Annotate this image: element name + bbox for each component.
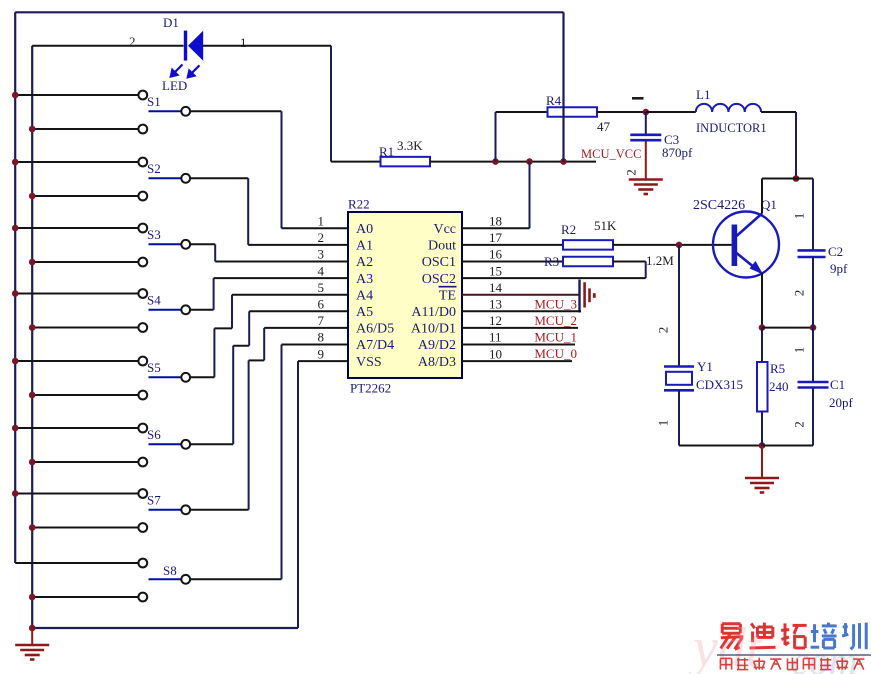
wire S3 to pin 3 [190, 244, 348, 261]
wire C1 bottom lead [763, 388, 813, 446]
wire Q1 collector [761, 179, 763, 214]
resistor R2 [563, 240, 613, 250]
wire ground stub RF section [761, 446, 763, 478]
junction S7 lower on rail [29, 524, 36, 531]
svg-text:S4: S4 [147, 292, 161, 307]
watermark char 训 [842, 623, 866, 650]
svg-text:51K: 51K [594, 218, 617, 233]
junction S2 lower on rail [29, 193, 36, 200]
svg-text:S1: S1 [147, 94, 161, 109]
svg-text:A3: A3 [356, 272, 373, 287]
switch S2 [138, 158, 190, 201]
junction emitter node [759, 324, 766, 331]
resistor R3 [563, 257, 613, 267]
junction MCU_VCC / Vcc branch [526, 158, 533, 165]
wire A9/D2 stub (net MCU_1) [462, 344, 575, 346]
svg-text:VSS: VSS [356, 355, 382, 370]
ground bottom-left [15, 645, 49, 660]
inductor L1 [696, 104, 761, 112]
wire Q1 emitter [761, 273, 763, 328]
svg-text:D1: D1 [163, 15, 179, 30]
svg-text:Vcc: Vcc [433, 222, 456, 237]
watermark char 拓 [781, 623, 807, 648]
svg-text:PT2262: PT2262 [350, 381, 391, 396]
svg-text:R4: R4 [546, 93, 562, 108]
svg-text:S5: S5 [147, 360, 161, 375]
svg-text:1: 1 [792, 347, 807, 354]
svg-text:1: 1 [792, 213, 807, 220]
svg-text:MCU_1: MCU_1 [534, 330, 577, 345]
junction ground node [759, 442, 766, 449]
svg-text:15: 15 [489, 263, 502, 278]
wire TE pin 14 to ground [462, 294, 580, 296]
wire S2 lower terminal to rail [33, 195, 138, 197]
ground RF section [745, 478, 779, 493]
svg-text:INDUCTOR1: INDUCTOR1 [696, 121, 767, 135]
svg-text:2: 2 [656, 327, 671, 334]
junction MCU_VCC / top border branch [560, 158, 567, 165]
wire L1 to collector node [761, 112, 796, 179]
wire S3 upper terminal to common rail [16, 227, 138, 229]
switch S8 [138, 559, 190, 602]
wire S7 lower terminal to rail [33, 527, 138, 529]
svg-text:com: com [791, 638, 858, 674]
svg-text:2: 2 [792, 421, 807, 428]
svg-text:A7/D4: A7/D4 [356, 338, 394, 353]
watermark small char 家 [853, 659, 864, 670]
wire R3 to OSC2 pin 15 [462, 262, 646, 279]
svg-text:2SC4226: 2SC4226 [693, 198, 745, 213]
switch S5 [138, 357, 190, 400]
svg-text:A4: A4 [356, 288, 373, 303]
junction collector node [793, 175, 800, 182]
watermark char 易 [721, 624, 743, 650]
svg-text:5: 5 [318, 280, 325, 295]
capacitor C2 [798, 250, 826, 257]
wire top border [15, 11, 563, 13]
resistor R1 [381, 157, 431, 167]
svg-text:14: 14 [489, 280, 503, 295]
wire C2 top lead [812, 179, 814, 251]
svg-text:18: 18 [489, 214, 502, 229]
junction S4 lower on rail [29, 324, 36, 331]
junction S5 upper on rail [12, 358, 19, 365]
svg-text:A8/D3: A8/D3 [418, 355, 456, 370]
svg-text:6: 6 [318, 297, 325, 312]
svg-text:9pf: 9pf [830, 261, 848, 276]
capacitor C3 [630, 135, 661, 140]
wire top border riser through R4 [562, 12, 564, 161]
wire A11/D0 stub (net MCU_3) [462, 310, 581, 312]
overline of TE [439, 286, 457, 288]
wire Vcc pin 18 riser [462, 162, 530, 229]
wire S4 upper terminal to common rail [16, 293, 138, 295]
wire ground bus bottom [32, 627, 298, 629]
svg-text:A5: A5 [356, 305, 373, 320]
svg-text:OSC1: OSC1 [422, 255, 456, 270]
wire collector top rail [762, 178, 813, 180]
wire C3 to ground [645, 142, 647, 180]
transistor Q1 2SC4226 [713, 212, 779, 278]
wire base node to Y1 [678, 245, 680, 366]
wire C3 node to L1 [646, 111, 696, 113]
svg-text:A6/D5: A6/D5 [356, 322, 394, 337]
svg-text:S7: S7 [147, 492, 161, 507]
wire R4 to C3 node [597, 111, 646, 113]
svg-text:CDX315: CDX315 [696, 377, 743, 392]
wire S8 to pin 8 [190, 345, 348, 580]
watermark small char 频 [737, 658, 748, 670]
wire OSC1 pin 16 to R3 [462, 261, 563, 263]
svg-text:17: 17 [489, 230, 503, 245]
svg-text:A10/D1: A10/D1 [411, 322, 456, 337]
svg-text:R22: R22 [348, 197, 370, 212]
junction S7 upper on rail [12, 490, 19, 497]
wire S6 to pin 6 [190, 311, 348, 444]
svg-text:2: 2 [624, 169, 639, 176]
junction S6 upper on rail [12, 425, 19, 432]
svg-text:MCU_2: MCU_2 [534, 313, 577, 328]
wire D1 cathode to R1 (net 1) [203, 46, 331, 162]
watermark small char 计 [820, 658, 831, 670]
resistor R4 [548, 107, 598, 117]
switch S7 [138, 489, 190, 532]
wire S6 upper terminal to common rail [16, 427, 138, 429]
svg-text:1: 1 [318, 214, 325, 229]
wire A8/D3 stub (net MCU_0) [462, 360, 572, 362]
wire ground stub bottom-left [31, 628, 33, 644]
svg-text:2: 2 [792, 290, 807, 297]
wire S1 to pin 1 [190, 111, 348, 228]
svg-text:OSC2: OSC2 [422, 272, 456, 287]
svg-text:A11/D0: A11/D0 [411, 305, 456, 320]
IC R22 PT2262 body [348, 212, 462, 378]
wire S2 to pin 2 [190, 178, 348, 245]
svg-text:MCU_3: MCU_3 [534, 296, 577, 311]
svg-text:20pf: 20pf [829, 395, 854, 410]
wire emitter node to C2 rail [762, 327, 813, 329]
wire R1 left [331, 161, 381, 163]
wire S5 upper terminal to common rail [16, 360, 138, 362]
svg-text:3: 3 [318, 247, 325, 262]
svg-text:C1: C1 [830, 377, 845, 392]
svg-text:A2: A2 [356, 255, 373, 270]
wire Y1 bottom [679, 390, 762, 445]
svg-text:Y1: Y1 [697, 359, 713, 374]
svg-text:16: 16 [489, 247, 503, 262]
watermark char 培 [811, 623, 837, 648]
watermark small char 天 [770, 659, 781, 670]
ground at TE (rotated earth) [580, 280, 595, 313]
wire C3 top lead [645, 112, 647, 134]
wire S8 lower terminal to rail [33, 596, 138, 598]
svg-text:2: 2 [129, 34, 136, 49]
wire S7 to pin 7 [190, 328, 348, 510]
svg-text:3.3K: 3.3K [397, 138, 423, 153]
svg-text:Q1: Q1 [761, 197, 777, 212]
resistor R5 [757, 362, 768, 412]
switch S4 [138, 289, 190, 332]
svg-text:MCU_0: MCU_0 [534, 346, 577, 361]
svg-text:2: 2 [318, 230, 325, 245]
junction node C3/L1 [643, 109, 650, 116]
svg-text:R1: R1 [379, 144, 394, 159]
wire left rail (switch commons to S8) [14, 12, 16, 563]
wire C2 bottom lead [812, 257, 814, 327]
watermark small char 专 [837, 658, 848, 670]
wire S4 to pin 4 [190, 278, 348, 310]
wire S6 lower terminal to rail [33, 461, 138, 463]
wire S1 lower terminal to rail [33, 128, 138, 130]
wire R2 to base node [613, 244, 732, 246]
switch S3 [138, 224, 190, 267]
wire S7 upper terminal to common rail [16, 493, 138, 495]
watermark separator line [717, 654, 871, 656]
junction MCU_VCC / R4 branch [492, 158, 499, 165]
svg-text:1: 1 [240, 35, 247, 50]
svg-text:C2: C2 [828, 244, 843, 259]
watermark small char 线 [788, 658, 798, 670]
junction S8 lower on rail [29, 594, 36, 601]
svg-text:1.2M: 1.2M [646, 253, 674, 268]
svg-text:S6: S6 [147, 427, 161, 442]
wire lower-terminal rail [31, 46, 33, 628]
wire S4 lower terminal to rail [33, 327, 138, 329]
svg-text:R3: R3 [544, 254, 559, 269]
svg-text:4: 4 [318, 263, 325, 278]
svg-text:MCU_VCC: MCU_VCC [581, 147, 641, 161]
junction S6 lower on rail [29, 459, 36, 466]
svg-text:870pf: 870pf [662, 145, 693, 160]
crystal Y1 CDX315 [664, 367, 694, 391]
svg-text:A9/D2: A9/D2 [418, 338, 456, 353]
svg-text:R5: R5 [770, 361, 785, 376]
svg-text:L1: L1 [696, 87, 710, 102]
svg-text:S3: S3 [147, 227, 161, 242]
svg-text:1: 1 [656, 420, 671, 427]
svg-text:S8: S8 [163, 563, 177, 578]
wire A10/D1 stub (net MCU_2) [462, 327, 578, 329]
wire S5 to pin 5 [190, 295, 348, 378]
svg-text:9: 9 [318, 346, 325, 361]
junction S3 upper on rail [12, 225, 19, 232]
svg-text:A1: A1 [356, 239, 373, 254]
switch S6 [138, 424, 190, 467]
watermark small char 射 [720, 658, 731, 669]
wire S5 lower terminal to rail [33, 394, 138, 396]
junction S1 lower on rail [29, 126, 36, 133]
capacitor C1 [798, 382, 829, 388]
junction S2 upper on rail [12, 159, 19, 166]
svg-text:13: 13 [489, 297, 502, 312]
svg-text:240: 240 [769, 379, 789, 394]
wire S2 upper terminal to common rail [16, 161, 138, 163]
svg-text:R2: R2 [561, 222, 576, 237]
svg-text:LED: LED [162, 78, 187, 93]
wire Dout pin 17 to R2 [462, 244, 563, 246]
wire emitter node to R5 [761, 328, 763, 362]
svg-text:11: 11 [489, 330, 502, 345]
watermark small char 和 [754, 658, 765, 670]
wire MCU_VCC net [430, 161, 596, 163]
svg-text:10: 10 [489, 346, 502, 361]
svg-text:8: 8 [318, 330, 325, 345]
wire S1 upper terminal to common rail [16, 94, 138, 96]
svg-text:Dout: Dout [428, 239, 456, 254]
svg-text:A0: A0 [356, 222, 373, 237]
junction S3 lower on rail [29, 259, 36, 266]
LED D1 symbol [171, 31, 203, 78]
junction base node [676, 242, 683, 249]
svg-text:TE: TE [439, 288, 456, 303]
junction S1 upper on rail [12, 92, 19, 99]
svg-text:7: 7 [318, 313, 325, 328]
wire S3 lower terminal to rail [33, 261, 138, 263]
polarity mark above C3 [632, 97, 644, 100]
svg-text:12: 12 [489, 313, 502, 328]
svg-text:47: 47 [597, 119, 611, 134]
switch S1 [138, 91, 190, 134]
wire R4 left branch [496, 112, 548, 162]
watermark char 迪 [750, 623, 776, 648]
junction S4 upper on rail [12, 290, 19, 297]
junction S5 lower on rail [29, 392, 36, 399]
ground below C3 [629, 180, 663, 195]
watermark small char 设 [803, 658, 814, 669]
svg-text:S2: S2 [147, 161, 161, 176]
wire S8 upper terminal from left rail [15, 562, 138, 564]
junction ground bus left [29, 625, 36, 632]
wire C1 top lead [812, 328, 814, 382]
wire R5 bottom [761, 412, 763, 446]
wire D1 anode (net 2) [32, 45, 183, 47]
junction C2 bottom node [810, 324, 817, 331]
wire VSS pin 9 to ground bus [298, 361, 348, 628]
